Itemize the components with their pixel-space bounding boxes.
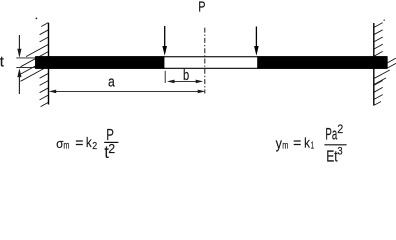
svg-text:m: m bbox=[63, 140, 69, 151]
svg-text:2: 2 bbox=[92, 141, 97, 152]
svg-text:2: 2 bbox=[337, 122, 343, 136]
a dimension line with arrows bbox=[49, 90, 206, 94]
svg-text:3: 3 bbox=[337, 146, 342, 158]
svg-text:m: m bbox=[282, 140, 288, 151]
speck right bbox=[383, 19, 385, 21]
hatching right wall bbox=[374, 23, 383, 106]
wall left bbox=[48, 23, 50, 105]
formula y_m = k1 Pa^2/Et^3 bbox=[276, 122, 347, 166]
svg-text:2: 2 bbox=[108, 142, 115, 156]
t dimension upper arrow bbox=[17, 35, 21, 58]
b dimension line with arrows bbox=[167, 80, 203, 84]
b dimension extension line bbox=[164, 71, 166, 83]
svg-text:a: a bbox=[108, 74, 115, 91]
centerline (dash-dot) bbox=[204, 28, 206, 94]
svg-text:Pa: Pa bbox=[325, 126, 337, 144]
load arrow left bbox=[162, 26, 167, 56]
speck left bbox=[36, 18, 38, 20]
wall right bbox=[373, 23, 375, 106]
t dimension extension lines bbox=[16, 57, 36, 59]
beam right black segment bbox=[257, 56, 387, 69]
svg-text:y: y bbox=[276, 136, 283, 153]
svg-text:=: = bbox=[293, 134, 301, 150]
svg-text:P: P bbox=[198, 0, 205, 16]
hatching left wall bbox=[21, 23, 49, 107]
hatching right wall extended near beam bbox=[374, 58, 396, 84]
svg-text:=: = bbox=[75, 134, 83, 150]
beam left black segment bbox=[36, 56, 165, 69]
formula sigma_m = k2 P/t^2 bbox=[56, 127, 118, 162]
load arrow right bbox=[254, 27, 259, 56]
beam plate outline (white mid section) bbox=[36, 57, 388, 69]
t dimension lower arrow bbox=[17, 68, 21, 94]
svg-text:b: b bbox=[183, 67, 189, 84]
svg-text:1: 1 bbox=[311, 141, 315, 152]
svg-text:Et: Et bbox=[326, 149, 338, 162]
svg-text:σ: σ bbox=[56, 136, 63, 151]
